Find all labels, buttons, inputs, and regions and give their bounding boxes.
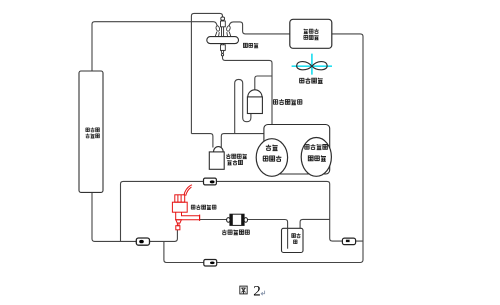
four-way valve right pilot tube xyxy=(226,25,231,36)
compressor 2 (fixed frequency no.1) xyxy=(301,138,331,177)
wire: condenser outlet down right rail and bottom rail xyxy=(164,34,363,263)
wire: four-way valve top port to suction drop line xyxy=(191,13,222,133)
return mark xyxy=(261,291,264,296)
evaporator label xyxy=(86,128,90,132)
wire: oil return loop from oil separator bottom xyxy=(235,79,251,133)
filter drier body xyxy=(227,214,248,225)
wire: liquid line from evaporator bottom to expansion valve xyxy=(92,192,177,241)
condenser label 风冷式冷凝器 xyxy=(304,29,308,34)
four-way valve bottom stem xyxy=(221,44,226,56)
four-way valve label 四通阀 xyxy=(243,43,247,47)
four-way valve top stem xyxy=(221,17,226,37)
wire: suction line into accumulator left neck xyxy=(191,134,213,148)
wire: accumulator right neck to compressor manifold xyxy=(221,134,264,148)
wire: four-way valve bottom port to manifold top xyxy=(223,55,273,125)
oil separator body xyxy=(247,97,262,114)
accumulator label 气液分离器 xyxy=(226,154,230,159)
wire: four-way valve right port to condenser xyxy=(229,22,290,34)
fan label 冷凝风扇 xyxy=(299,78,304,84)
evaporator (left tall heat exchanger) xyxy=(79,71,103,192)
four-way valve left pilot tube xyxy=(215,25,220,36)
receiver 储液器 xyxy=(282,228,304,252)
EEV label 电子膨胀阀 xyxy=(191,205,195,210)
oil separator label 高效油分器 xyxy=(273,99,278,104)
sight glass on liquid line xyxy=(136,238,149,245)
wire: branch to oil separator top xyxy=(255,76,272,90)
wire: evaporator top to four-way valve left port xyxy=(92,22,218,71)
electronic expansion valve (red) xyxy=(172,185,199,230)
condenser box xyxy=(290,19,332,48)
wire: branch into receiver top xyxy=(300,219,330,228)
svg-text:2: 2 xyxy=(253,284,261,300)
sight glass near right rail xyxy=(342,238,355,245)
filter drier label 干燥过滤器 xyxy=(222,230,227,235)
compressor 2 label 1号定频/压缩机 xyxy=(305,144,310,149)
wire: filter drier line into receiver dip tube xyxy=(200,220,288,249)
receiver label 储液器 xyxy=(292,234,296,238)
condenser fan cyan cross xyxy=(292,54,332,75)
wire: receiver dip tube xyxy=(287,228,289,248)
four-way valve body xyxy=(207,37,239,44)
sight glass on discharge line xyxy=(204,178,217,185)
oil separator dome xyxy=(248,90,262,97)
condenser fan blades xyxy=(297,62,327,70)
caption 图 2 xyxy=(240,286,247,294)
sight glass on bottom rail xyxy=(204,260,217,267)
compressor 1 label 变频/压缩机 xyxy=(266,145,271,151)
wire: compressor discharge bottom line xyxy=(121,181,364,241)
compressor manifold box xyxy=(264,125,330,175)
accumulator body xyxy=(209,152,224,169)
accumulator dome xyxy=(214,147,224,152)
compressor 1 (variable frequency) xyxy=(256,139,287,177)
